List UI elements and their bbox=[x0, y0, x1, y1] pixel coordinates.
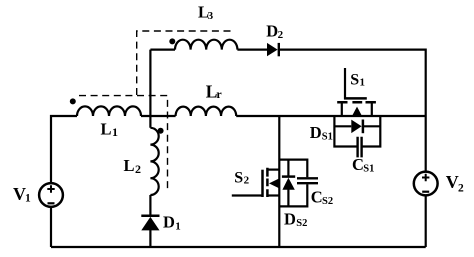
diode DS2 (body diode of S2) bbox=[282, 160, 295, 207]
svg-text:1: 1 bbox=[25, 192, 31, 204]
wire: top wire from corner to L3 bbox=[150, 48, 175, 50]
capacitor CS1 bbox=[358, 137, 362, 158]
svg-text:2: 2 bbox=[278, 29, 284, 41]
inductor L1 bbox=[77, 106, 141, 116]
wire: top wire from D2 cathode to top-right corner and down right rail to V2 bbox=[279, 50, 426, 172]
wire: middle wire from Lr to right rail through S1 row bbox=[236, 115, 426, 117]
svg-text:L: L bbox=[124, 156, 135, 175]
inductor L3 bbox=[175, 40, 237, 50]
label L3 bbox=[198, 2, 214, 22]
svg-text:D: D bbox=[163, 212, 175, 231]
voltage source V1 bbox=[39, 183, 63, 207]
svg-text:L: L bbox=[101, 119, 112, 138]
svg-text:D: D bbox=[310, 123, 322, 142]
svg-text:1: 1 bbox=[175, 220, 181, 232]
node dot: polarity dot of L3 bbox=[169, 38, 175, 44]
svg-text:D: D bbox=[266, 22, 278, 41]
label CS1 bbox=[352, 155, 374, 175]
svg-text:C: C bbox=[311, 187, 323, 206]
svg-text:D: D bbox=[284, 209, 296, 228]
label V1 bbox=[13, 184, 31, 204]
transistor S1 (MOSFET, gate at top) bbox=[337, 98, 376, 116]
wire: snubber loop of S1 (rectangle sides) bbox=[334, 116, 380, 147]
wire: D1 anode to bottom wire bbox=[149, 230, 151, 247]
svg-text:S2: S2 bbox=[322, 196, 333, 207]
label DS2 bbox=[284, 209, 307, 229]
voltage source V2 bbox=[414, 172, 438, 196]
node dot: polarity dot of L2 bbox=[158, 128, 164, 134]
wire: top wire from L3 to D2 anode bbox=[237, 48, 267, 50]
svg-text:C: C bbox=[352, 155, 364, 174]
wire: S1 gate lead from top bbox=[344, 68, 346, 99]
svg-text:r: r bbox=[216, 87, 222, 101]
svg-text:V: V bbox=[446, 172, 459, 192]
svg-text:S: S bbox=[234, 170, 243, 187]
wire: L2 bottom to D1 cathode bar bbox=[149, 195, 151, 216]
svg-text:2: 2 bbox=[135, 162, 141, 176]
wire: snubber loop of S2 (rectangle sides) bbox=[279, 160, 307, 207]
svg-text:1: 1 bbox=[360, 77, 366, 89]
wire: left rail from V1 bottom to bottom-left corner bbox=[50, 207, 52, 247]
wire: vertical branch from top wire corner down through node to L2 bbox=[149, 50, 151, 128]
svg-text:S2: S2 bbox=[296, 218, 307, 229]
label D1 bbox=[163, 212, 181, 232]
capacitor CS2 bbox=[297, 178, 318, 183]
label L1 bbox=[101, 119, 119, 139]
wire: S2 branch vertical from middle wire down to bottom wire bbox=[278, 116, 280, 247]
inductor L2 bbox=[150, 128, 158, 195]
dashed coupling outline around L1 and L2 bbox=[79, 96, 168, 191]
svg-text:S: S bbox=[350, 71, 359, 88]
node dot: polarity dot of L1 bbox=[70, 98, 76, 104]
wire: left rail from V1 top up to middle-wire corner, then right to L1 bbox=[51, 116, 77, 183]
label D2 bbox=[266, 22, 283, 41]
svg-text:2: 2 bbox=[244, 175, 250, 187]
wire: bottom rail bbox=[51, 246, 426, 248]
label CS2 bbox=[311, 187, 333, 207]
svg-text:1: 1 bbox=[112, 125, 118, 139]
diode DS1 (body diode of S1) bbox=[334, 120, 380, 134]
diode D1 bbox=[141, 216, 159, 231]
svg-text:3: 3 bbox=[208, 10, 214, 22]
wire: middle wire from L1 to Lr through node at x=150 bbox=[141, 115, 176, 117]
label DS1 bbox=[310, 123, 333, 143]
svg-text:2: 2 bbox=[458, 182, 464, 194]
svg-text:S1: S1 bbox=[363, 164, 374, 175]
svg-text:S1: S1 bbox=[322, 132, 333, 143]
label S1 bbox=[350, 71, 365, 88]
label V2 bbox=[446, 172, 464, 195]
diode D2 bbox=[267, 43, 279, 56]
label L2 bbox=[124, 156, 142, 176]
dashed coupling outline around L3 bbox=[137, 31, 235, 95]
label S2 bbox=[234, 170, 249, 187]
inductor Lr bbox=[176, 107, 237, 116]
transistor S2 (MOSFET, gate at left) bbox=[232, 168, 279, 197]
label Lr bbox=[206, 82, 223, 102]
wire: right rail from V2 bottom to bottom-right corner bbox=[425, 196, 427, 248]
